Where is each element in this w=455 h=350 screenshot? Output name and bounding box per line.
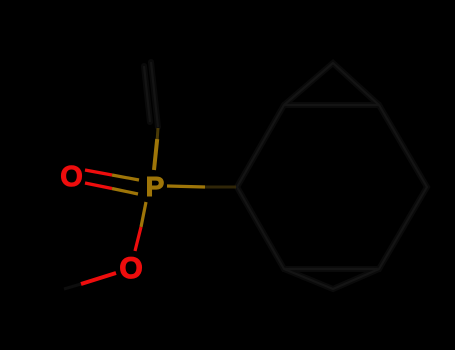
svg-text:O: O [60, 161, 83, 193]
svg-text:P: P [146, 171, 165, 202]
svg-text:O: O [119, 252, 142, 285]
